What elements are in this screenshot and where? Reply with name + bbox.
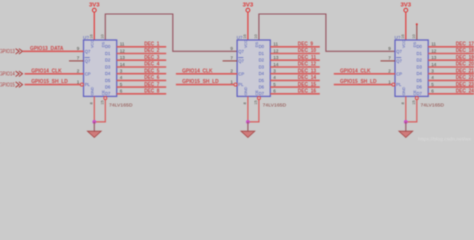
svg-text:CP: CP [238,71,244,76]
svg-text:GPIO15_SH_LD: GPIO15_SH_LD [31,79,68,85]
wire net GPIO14_CLK from connector GPIO14 to CP pin 2 of U1 [25,73,84,75]
wire net DEC_12 from D3 pin 14 of U2 [270,66,320,68]
IC U2 74LV165D shift register [237,35,287,107]
wire net DEC_6 from D5 pin 4 of U1 [117,79,167,81]
svg-text:DEC_4: DEC_4 [144,62,160,68]
svg-text:D1: D1 [105,51,111,56]
svg-text:DS: DS [413,41,417,47]
wire GND pin 8 of U3 down to junction [405,96,407,122]
svg-text:3V3: 3V3 [89,2,100,8]
svg-text:D1: D1 [259,51,265,56]
svg-text:U?: U? [395,35,401,40]
svg-text:DEC_3: DEC_3 [144,55,159,61]
svg-text:DEC_23: DEC_23 [456,82,474,88]
svg-text:DS: DS [255,41,259,47]
svg-text:DEC_7: DEC_7 [144,82,159,88]
wire net: U2 DS pin 10 up/over/down to U3 Q7 pin 9 [259,14,395,51]
svg-text:https://blog.csdn.net/wx: https://blog.csdn.net/wx [418,137,472,143]
svg-text:6: 6 [273,89,276,94]
wire net DEC_22 from D5 pin 4 of U3 [428,79,474,81]
svg-text:Q7: Q7 [238,49,244,54]
svg-text:74LV165D: 74LV165D [263,102,287,107]
connector GPIO13 (pin header chevron) [0,49,22,56]
svg-text:VCC: VCC [91,40,95,48]
svg-text:3V3: 3V3 [401,2,412,8]
wire net DEC_14 from D5 pin 4 of U2 [270,79,320,81]
svg-text:DEC_12: DEC_12 [298,62,316,68]
svg-text:GND: GND [244,87,248,96]
svg-text:D6: D6 [259,85,265,90]
svg-text:3: 3 [120,69,123,74]
svg-text:Q7: Q7 [238,59,244,64]
svg-text:D5: D5 [259,78,265,83]
svg-text:DEC_13: DEC_13 [298,68,316,74]
svg-text:7: 7 [230,56,233,61]
svg-text:GND: GND [402,87,406,96]
svg-text:DEC_11: DEC_11 [298,55,316,61]
svg-text:15: 15 [254,100,258,104]
svg-text:11: 11 [273,42,278,47]
wire net DEC_24 from D7 pin 6 of U3 [428,93,474,95]
wire net GPIO14_CLK stub to CP pin 2 of U3 [334,73,395,75]
wire GND pin 8 of U1 down to junction [93,96,95,122]
wire net DEC_1 from D0 pin 11 of U1 [117,46,167,48]
svg-text:8: 8 [90,102,94,104]
svg-text:5: 5 [273,82,276,87]
wire net DEC_16 from D7 pin 6 of U2 [270,93,320,95]
svg-text:DEC_1: DEC_1 [144,42,159,48]
svg-text:D4: D4 [417,71,423,76]
wire net DEC_13 from D4 pin 3 of U2 [270,73,320,75]
svg-text:D7: D7 [417,91,423,96]
svg-text:D6: D6 [417,85,423,90]
3V3 power supply symbol (IC U3) [401,2,412,12]
ground symbol (U2) [241,131,255,137]
svg-text:DEC_9: DEC_9 [298,42,313,48]
svg-text:10: 10 [412,34,416,38]
inversion bubble on PL pin 1 of U3 [392,83,395,86]
svg-text:D2: D2 [105,58,111,63]
junction node (U3 GND/CE) [404,120,408,124]
svg-text:GPIO15: GPIO15 [0,83,15,89]
svg-text:14: 14 [273,62,279,67]
svg-text:16: 16 [401,34,405,38]
svg-text:1: 1 [230,79,233,84]
svg-text:GPIO14_CLK: GPIO14_CLK [31,68,62,74]
svg-text:DEC_17: DEC_17 [456,42,474,48]
svg-text:74LV165D: 74LV165D [421,102,445,107]
svg-text:GPIO15_SH_LD: GPIO15_SH_LD [340,79,377,85]
svg-text:DEC_8: DEC_8 [144,89,159,95]
svg-text:GPIO14_CLK: GPIO14_CLK [182,68,213,74]
wire CE pin 15 of U2 down and left to junction [248,100,259,122]
svg-text:15: 15 [412,100,416,104]
wire GND pin 8 of U2 down to junction [247,96,249,122]
wire net DEC_4 from D3 pin 14 of U1 [117,66,167,68]
inversion bubble on CE pin 15 of U2 [257,97,260,100]
svg-text:D0: D0 [105,44,111,49]
wire net DEC_17 from D0 pin 11 of U3 [428,46,474,48]
svg-text:D0: D0 [259,44,265,49]
pin numbers of U2 [230,34,279,104]
svg-text:9: 9 [77,46,80,51]
svg-text:1: 1 [388,79,391,84]
svg-text:VCC: VCC [244,40,248,48]
svg-text:8: 8 [243,102,247,104]
wire junction to ground symbol (U1) [93,122,95,131]
svg-text:10: 10 [254,34,258,38]
svg-text:CE: CE [255,90,259,96]
svg-text:CP: CP [396,71,402,76]
wire net DEC_3 from D2 pin 13 of U1 [117,59,167,61]
svg-text:2: 2 [388,69,391,74]
svg-text:4: 4 [120,75,123,80]
wire junction to ground symbol (U2) [247,122,249,131]
wire CE pin 15 of U3 down and left to junction [406,100,417,122]
svg-text:D0: D0 [417,44,423,49]
wire net DEC_8 from D7 pin 6 of U1 [117,93,167,95]
svg-text:PL: PL [85,82,91,87]
wire net DEC_15 from D6 pin 5 of U2 [270,86,320,88]
svg-text:D1: D1 [417,51,423,56]
svg-text:U?: U? [83,35,89,40]
junction node (U1 GND/CE) [92,120,96,124]
svg-text:4: 4 [273,75,276,80]
wire net DEC_5 from D4 pin 3 of U1 [117,73,167,75]
svg-text:2: 2 [77,69,80,74]
wire net GPIO13_DATA from connector GPIO13 to Q7 pin 9 of U1 [23,50,84,52]
svg-text:12: 12 [431,48,437,53]
svg-text:7: 7 [77,56,80,61]
unconnected /Q7 pin 7 stub of U1 [69,60,84,62]
3V3 power supply symbol (IC U1) [89,2,100,12]
svg-text:6: 6 [431,89,434,94]
3V3 power supply symbol (IC U2) [243,2,254,12]
svg-text:Q7: Q7 [85,59,91,64]
svg-text:13: 13 [431,55,437,60]
svg-text:3: 3 [431,69,434,74]
svg-text:D4: D4 [105,71,111,76]
svg-text:4: 4 [431,75,434,80]
wire net DEC_20 from D3 pin 14 of U3 [428,66,474,68]
svg-text:14: 14 [120,62,126,67]
svg-text:D6: D6 [105,85,111,90]
svg-text:11: 11 [431,42,436,47]
wire net DEC_11 from D2 pin 13 of U2 [270,59,320,61]
wire junction to ground symbol (U3) [405,122,407,131]
svg-text:PL: PL [396,82,402,87]
svg-text:D5: D5 [417,78,423,83]
svg-text:D2: D2 [259,58,265,63]
svg-text:DEC_15: DEC_15 [298,82,316,88]
svg-text:DEC_6: DEC_6 [144,75,159,81]
pin numbers of U3 [388,34,437,104]
svg-text:16: 16 [243,34,247,38]
wire net DEC_18 from D1 pin 12 of U3 [428,53,474,55]
svg-text:GPIO13: GPIO13 [0,49,15,55]
svg-text:D3: D3 [259,64,265,69]
wire net GPIO15_SH_LD stub to PL pin 1 of U2 [176,84,234,86]
svg-text:9: 9 [230,46,233,51]
svg-text:1: 1 [77,79,80,84]
wire net DEC_2 from D1 pin 12 of U1 [117,53,167,55]
svg-text:8: 8 [401,102,405,104]
IC U1 74LV165D shift register [83,35,133,107]
wire net DEC_7 from D6 pin 5 of U1 [117,86,167,88]
svg-text:D7: D7 [259,91,265,96]
svg-text:13: 13 [120,55,126,60]
svg-text:D5: D5 [105,78,111,83]
svg-text:74LV165D: 74LV165D [109,102,133,107]
wire net DEC_23 from D6 pin 5 of U3 [428,86,474,88]
svg-text:GPIO14: GPIO14 [0,72,15,78]
svg-text:DEC_10: DEC_10 [298,48,316,54]
svg-text:16: 16 [90,34,94,38]
inversion bubble on CE pin 15 of U1 [104,97,107,100]
svg-text:D3: D3 [105,64,111,69]
wire CE pin 15 of U1 down and left to junction [94,100,105,122]
svg-text:DEC_19: DEC_19 [456,55,474,61]
svg-text:DEC_18: DEC_18 [456,48,474,54]
svg-text:2: 2 [230,69,233,74]
svg-text:D7: D7 [105,91,111,96]
unconnected /Q7 pin 7 stub of U2 [223,60,238,62]
svg-text:14: 14 [431,62,437,67]
svg-text:11: 11 [120,42,125,47]
svg-text:DEC_21: DEC_21 [456,68,474,74]
svg-text:D2: D2 [417,58,423,63]
wire 3V3 to VCC pin 16 of U3 [405,12,407,40]
svg-text:PL: PL [238,82,244,87]
svg-text:VCC: VCC [402,40,406,48]
unconnected /Q7 pin 7 stub of U3 [381,60,396,62]
ground symbol (U3) [399,131,413,137]
svg-text:DEC_5: DEC_5 [144,68,159,74]
wire net: U1 DS pin 10 up/over/down to U2 Q7 pin 9 [105,14,237,51]
svg-text:DEC_24: DEC_24 [456,89,474,95]
svg-text:GPIO14_CLK: GPIO14_CLK [340,68,371,74]
svg-text:CE: CE [413,90,417,96]
wire net GPIO15_SH_LD from connector GPIO15 to PL pin 1 of U1 [25,84,81,86]
svg-text:GPIO15_SH_LD: GPIO15_SH_LD [182,79,219,85]
svg-text:DS: DS [102,41,106,47]
svg-text:GND: GND [91,87,95,96]
wire net DEC_10 from D1 pin 12 of U2 [270,53,320,55]
svg-text:DEC_14: DEC_14 [298,75,317,81]
svg-text:5: 5 [431,82,434,87]
inversion bubble on CE pin 15 of U3 [415,97,418,100]
svg-text:DEC_2: DEC_2 [144,48,159,54]
svg-text:D4: D4 [259,71,265,76]
svg-text:10: 10 [101,34,105,38]
svg-text:D3: D3 [417,64,423,69]
junction node (U2 GND/CE) [246,120,250,124]
svg-text:5: 5 [120,82,123,87]
svg-text:U?: U? [237,35,243,40]
svg-text:GPIO13_DATA: GPIO13_DATA [30,46,64,52]
connector GPIO15 (pin header chevron) [0,82,22,89]
svg-text:12: 12 [273,48,279,53]
svg-text:3V3: 3V3 [243,2,254,8]
wire net DEC_19 from D2 pin 13 of U3 [428,59,474,61]
connector GPIO14 (pin header chevron) [0,71,22,78]
inversion bubble on PL pin 1 of U2 [234,83,237,86]
svg-text:DEC_20: DEC_20 [456,62,474,68]
wire 3V3 to VCC pin 16 of U2 [247,12,249,40]
ground symbol (U1) [87,131,101,137]
svg-text:6: 6 [120,89,123,94]
svg-text:CP: CP [85,71,91,76]
wire net DEC_9 from D0 pin 11 of U2 [270,46,320,48]
svg-text:7: 7 [388,56,391,61]
inversion bubble on PL pin 1 of U1 [80,83,83,86]
unconnected DS pin 10 stub of U3 [416,25,418,40]
svg-text:13: 13 [273,55,279,60]
IC U3 74LV165D shift register [395,35,445,107]
svg-text:CE: CE [102,90,106,96]
svg-text:15: 15 [101,100,105,104]
wire net GPIO14_CLK stub to CP pin 2 of U2 [176,73,237,75]
svg-text:DEC_16: DEC_16 [298,89,316,95]
svg-text:DEC_22: DEC_22 [456,75,474,81]
svg-text:Q7: Q7 [396,59,402,64]
pin numbers of U1 [77,34,126,104]
wire net GPIO15_SH_LD stub to PL pin 1 of U3 [334,84,392,86]
svg-text:Q7: Q7 [85,49,91,54]
svg-text:12: 12 [120,48,126,53]
svg-text:9: 9 [388,46,391,51]
wire net DEC_21 from D4 pin 3 of U3 [428,73,474,75]
svg-text:3: 3 [273,69,276,74]
svg-text:Q7: Q7 [396,49,402,54]
wire 3V3 to VCC pin 16 of U1 [93,12,95,40]
